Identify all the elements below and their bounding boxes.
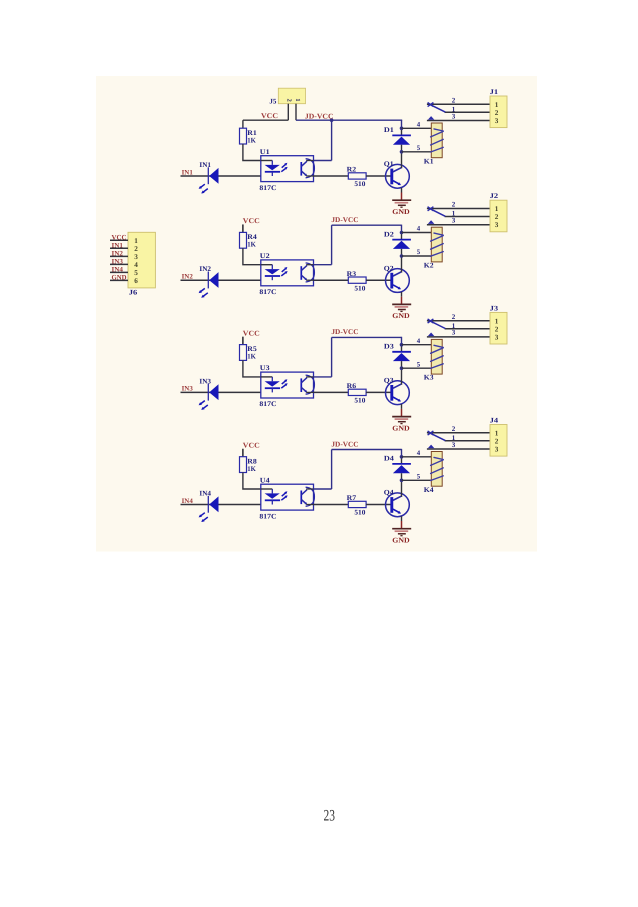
svg-text:JD-VCC: JD-VCC [331,328,358,336]
svg-text:D3: D3 [384,343,395,351]
svg-text:J3: J3 [490,304,499,312]
svg-text:3: 3 [495,117,499,125]
svg-text:23: 23 [323,808,335,825]
svg-text:1: 1 [495,429,499,437]
svg-text:3: 3 [134,253,138,261]
svg-text:K3: K3 [424,374,434,382]
svg-text:U2: U2 [260,252,270,260]
svg-text:1K: 1K [247,241,256,249]
svg-text:510: 510 [354,397,366,405]
svg-text:4: 4 [417,450,421,457]
svg-text:5: 5 [134,269,138,277]
svg-text:5: 5 [417,145,421,152]
svg-text:3: 3 [452,329,456,337]
svg-text:J5: J5 [269,97,277,105]
svg-text:D1: D1 [384,126,395,134]
svg-text:IN3: IN3 [199,377,211,385]
svg-text:2: 2 [134,245,138,253]
svg-text:R7: R7 [347,494,357,502]
svg-text:J2: J2 [490,192,499,200]
svg-text:3: 3 [495,221,499,229]
svg-text:2: 2 [452,201,456,209]
svg-text:510: 510 [354,509,366,517]
svg-text:510: 510 [354,284,366,292]
svg-text:4: 4 [417,338,421,345]
svg-text:K2: K2 [424,262,434,270]
svg-text:IN1: IN1 [182,169,194,176]
svg-text:1: 1 [294,98,301,101]
svg-text:JD-VCC: JD-VCC [331,216,358,224]
svg-text:R2: R2 [347,166,357,174]
svg-text:6: 6 [134,277,138,285]
svg-text:4: 4 [417,226,421,233]
svg-text:J4: J4 [490,417,499,425]
svg-text:IN2: IN2 [199,265,211,273]
svg-text:817C: 817C [259,400,276,408]
svg-text:3: 3 [495,333,499,341]
svg-text:Q2: Q2 [384,264,394,272]
svg-text:Q3: Q3 [384,377,394,385]
svg-text:IN4: IN4 [182,498,194,505]
svg-text:JD-VCC: JD-VCC [331,440,358,448]
svg-text:1: 1 [495,317,499,325]
svg-text:GND: GND [392,208,409,216]
svg-text:3: 3 [452,217,456,225]
svg-text:Q1: Q1 [384,160,394,168]
svg-text:IN2: IN2 [112,250,124,257]
svg-text:2: 2 [495,213,499,221]
svg-text:J6: J6 [129,289,138,297]
svg-text:2: 2 [495,437,499,445]
svg-text:IN2: IN2 [182,274,194,281]
svg-text:1: 1 [134,237,138,245]
svg-text:3: 3 [452,112,456,120]
svg-text:D4: D4 [384,455,395,463]
svg-text:U4: U4 [260,476,270,484]
svg-text:U1: U1 [260,148,270,156]
svg-text:2: 2 [495,325,499,333]
svg-text:D2: D2 [384,230,395,238]
svg-text:5: 5 [417,249,421,256]
svg-text:GND: GND [392,424,409,432]
svg-text:IN4: IN4 [112,266,124,273]
svg-text:2: 2 [286,99,293,102]
svg-text:GND: GND [392,536,409,544]
svg-text:5: 5 [417,473,421,480]
svg-text:817C: 817C [259,288,276,296]
svg-text:1K: 1K [247,465,256,473]
svg-text:VCC: VCC [261,112,278,120]
svg-text:1: 1 [495,101,499,109]
svg-text:4: 4 [134,261,138,269]
svg-text:2: 2 [452,425,456,433]
svg-text:510: 510 [354,180,366,188]
svg-text:GND: GND [112,274,127,281]
svg-text:U3: U3 [260,364,270,372]
svg-text:817C: 817C [259,184,276,192]
svg-text:3: 3 [452,441,456,449]
svg-text:K1: K1 [424,157,434,165]
svg-text:1K: 1K [247,353,256,361]
svg-text:3: 3 [495,446,499,454]
svg-text:R3: R3 [347,270,357,278]
svg-text:IN4: IN4 [199,490,211,498]
svg-text:IN1: IN1 [112,242,124,249]
svg-text:VCC: VCC [243,217,260,225]
svg-text:1: 1 [495,205,499,213]
svg-text:2: 2 [452,313,456,321]
svg-text:Q4: Q4 [384,489,394,497]
svg-text:IN3: IN3 [112,258,124,265]
svg-text:817C: 817C [259,512,276,520]
svg-text:IN1: IN1 [199,161,211,169]
svg-text:J1: J1 [490,88,499,96]
svg-text:R6: R6 [347,382,357,390]
svg-text:VCC: VCC [112,234,127,241]
svg-text:2: 2 [452,97,456,105]
svg-text:JD-VCC: JD-VCC [305,112,334,120]
svg-text:2: 2 [495,109,499,117]
svg-text:VCC: VCC [243,329,260,337]
svg-text:5: 5 [417,361,421,368]
svg-text:1K: 1K [247,136,256,144]
svg-text:4: 4 [417,121,421,128]
svg-text:IN3: IN3 [182,386,194,393]
svg-text:VCC: VCC [243,441,260,449]
svg-text:K4: K4 [424,486,434,494]
svg-text:GND: GND [392,312,409,320]
